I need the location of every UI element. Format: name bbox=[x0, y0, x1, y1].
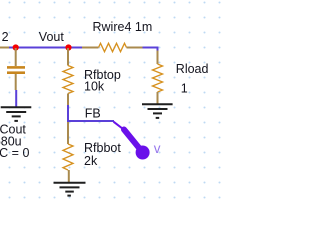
svg-text:FB: FB bbox=[85, 107, 101, 121]
svg-text:v: v bbox=[154, 141, 161, 156]
wire: FB net vertical from Rfbtop to Rfbbot bbox=[67, 105, 69, 122]
capacitor C1 Cout top lead bbox=[15, 48, 17, 66]
svg-text:Rload: Rload bbox=[176, 62, 209, 76]
net label FB bbox=[85, 107, 101, 121]
voltage probe tip ball bbox=[136, 146, 150, 160]
capacitor Cout bottom lead bbox=[15, 74, 17, 90]
component label Rfbtop bbox=[84, 68, 121, 82]
wire: Cout to ground bbox=[15, 90, 17, 107]
svg-text:2: 2 bbox=[2, 30, 9, 44]
capacitor Cout plates bbox=[7, 66, 25, 74]
svg-text:IC = 0: IC = 0 bbox=[0, 146, 29, 160]
resistor Rwire4 zigzag body bbox=[99, 43, 127, 51]
wire: FB net horizontal to probe bbox=[67, 120, 114, 122]
voltage probe needle wire bbox=[114, 122, 126, 131]
value label IC = 0 bbox=[0, 146, 29, 160]
resistor Rload bottom lead bbox=[157, 92, 159, 104]
node 2 label bbox=[2, 30, 9, 44]
resistor Rfbtop top lead bbox=[67, 48, 69, 66]
value label 10k bbox=[84, 80, 105, 94]
svg-text:1: 1 bbox=[181, 82, 188, 96]
voltage probe shaft bbox=[124, 130, 140, 149]
ground under Rload bbox=[142, 104, 173, 118]
component label Rfbbot bbox=[84, 141, 121, 155]
resistor Rwire4 left lead bbox=[82, 47, 99, 49]
wire: Rwire4 to Rload with corner bbox=[143, 48, 158, 51]
svg-text:Rwire4 1m: Rwire4 1m bbox=[93, 20, 153, 34]
resistor Rfbbot zigzag body bbox=[63, 144, 73, 170]
svg-text:Rfbbot: Rfbbot bbox=[84, 141, 121, 155]
resistor Rwire4 right lead bbox=[127, 47, 143, 49]
resistor Rload zigzag body bbox=[153, 64, 163, 92]
value label Cout bbox=[0, 123, 26, 137]
net label Vout bbox=[39, 30, 65, 44]
resistor Rfbtop bottom lead bbox=[67, 94, 69, 106]
value label 2k bbox=[84, 154, 98, 168]
wire: lead stub of off-page component entering at left edge bbox=[0, 47, 10, 49]
svg-text:2k: 2k bbox=[84, 154, 98, 168]
resistor Rwire4 label bbox=[93, 20, 153, 34]
wire: Vout net from node 2 to Rwire4 left pin bbox=[9, 47, 82, 49]
resistor Rfbbot bottom lead bbox=[68, 170, 70, 183]
ground under Rfbbot bbox=[54, 183, 86, 196]
component label Rload bbox=[176, 62, 209, 76]
value label 1 bbox=[181, 82, 188, 96]
junction dot at node 2 / Cout bbox=[13, 44, 19, 50]
value label 680u bbox=[0, 134, 22, 148]
resistor Rfbtop zigzag body bbox=[63, 66, 73, 94]
junction dot at Vout / Rfbtop bbox=[65, 44, 71, 50]
resistor Rload top lead bbox=[157, 51, 159, 65]
svg-text:10k: 10k bbox=[84, 80, 105, 94]
resistor Rfbbot top lead bbox=[67, 122, 69, 144]
svg-text:Vout: Vout bbox=[39, 30, 65, 44]
probe label v bbox=[154, 141, 161, 156]
ground under Cout bbox=[1, 107, 32, 121]
